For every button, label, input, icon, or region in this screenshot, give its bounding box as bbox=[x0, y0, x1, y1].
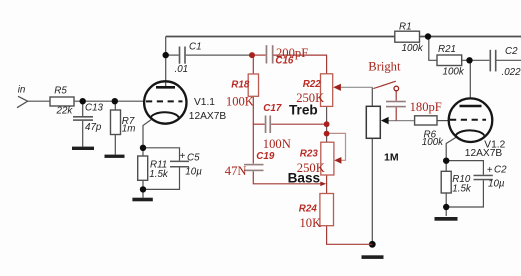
svg-text:in: in bbox=[18, 84, 26, 95]
svg-text:10K: 10K bbox=[300, 216, 322, 230]
svg-text:+: + bbox=[180, 151, 186, 162]
svg-text:Bright: Bright bbox=[368, 59, 401, 73]
svg-text:.01: .01 bbox=[175, 64, 189, 75]
svg-text:Bass: Bass bbox=[288, 170, 321, 185]
svg-text:47p: 47p bbox=[85, 122, 102, 133]
svg-text:10µ: 10µ bbox=[488, 179, 505, 190]
svg-text:200pF: 200pF bbox=[276, 46, 308, 60]
svg-text:C5: C5 bbox=[187, 152, 200, 163]
svg-text:47N: 47N bbox=[225, 164, 247, 178]
svg-text:Treb: Treb bbox=[289, 103, 318, 118]
svg-text:R5: R5 bbox=[54, 86, 67, 97]
svg-text:R23: R23 bbox=[300, 148, 319, 159]
svg-text:180pF: 180pF bbox=[410, 100, 442, 114]
svg-text:100k: 100k bbox=[402, 43, 424, 54]
svg-text:1.5k: 1.5k bbox=[452, 183, 472, 194]
svg-text:R21: R21 bbox=[438, 44, 456, 55]
svg-text:100N: 100N bbox=[263, 137, 291, 151]
svg-text:22k: 22k bbox=[56, 106, 74, 117]
svg-text:100K: 100K bbox=[226, 95, 254, 109]
svg-text:C1: C1 bbox=[189, 41, 202, 52]
svg-text:C2: C2 bbox=[494, 164, 507, 175]
svg-text:1M: 1M bbox=[384, 151, 399, 163]
svg-text:V1.1: V1.1 bbox=[194, 97, 215, 108]
svg-text:100k: 100k bbox=[422, 137, 444, 148]
svg-text:+: + bbox=[487, 165, 493, 176]
svg-text:10µ: 10µ bbox=[185, 167, 202, 178]
svg-text:C19: C19 bbox=[256, 151, 275, 162]
svg-text:R1: R1 bbox=[399, 21, 412, 32]
svg-text:1m: 1m bbox=[122, 124, 136, 135]
svg-text:12AX7B: 12AX7B bbox=[189, 111, 227, 122]
svg-text:R24: R24 bbox=[299, 203, 318, 214]
svg-text:.022: .022 bbox=[502, 67, 521, 78]
svg-text:1.5k: 1.5k bbox=[149, 169, 169, 180]
svg-text:R22: R22 bbox=[303, 79, 322, 90]
svg-text:C17: C17 bbox=[263, 103, 282, 114]
svg-text:100k: 100k bbox=[443, 67, 465, 78]
svg-text:R18: R18 bbox=[231, 80, 250, 91]
svg-text:C2: C2 bbox=[505, 46, 518, 57]
svg-text:C13: C13 bbox=[85, 102, 104, 113]
svg-text:12AX7B: 12AX7B bbox=[465, 148, 503, 159]
